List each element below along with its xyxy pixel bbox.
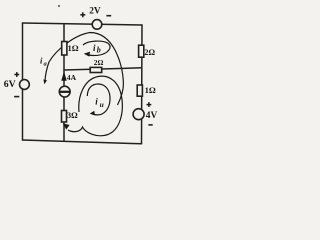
svg-text:1Ω: 1Ω xyxy=(145,85,156,95)
svg-text:6V: 6V xyxy=(4,79,16,90)
arrowhead of inner iu loop xyxy=(90,111,95,116)
svg-text:u: u xyxy=(100,100,104,109)
minus of 2V xyxy=(106,15,111,17)
svg-text:4A: 4A xyxy=(67,73,77,82)
resistor 3ohm (bottom middle) xyxy=(62,111,67,123)
wire: bottom xyxy=(23,140,142,144)
plus of 6V xyxy=(14,72,19,77)
wire: top xyxy=(23,23,143,25)
loop ellipse iu (bottom mesh) xyxy=(68,76,122,136)
svg-text:3Ω: 3Ω xyxy=(67,111,78,120)
svg-text:b: b xyxy=(97,46,101,55)
minus of 4V xyxy=(148,124,152,126)
speck near top xyxy=(58,5,60,7)
current source 4A (middle) xyxy=(59,86,70,97)
resistor 2ohm (middle horizontal) xyxy=(90,67,102,72)
svg-text:4V: 4V xyxy=(146,111,158,121)
arrowhead of iA arc xyxy=(43,79,47,84)
wire: right branch xyxy=(141,25,144,144)
loop ellipse ib (small, top mesh) xyxy=(83,41,110,55)
resistor 2ohm (right top) xyxy=(139,45,144,57)
wire: middle horizontal xyxy=(64,68,142,70)
plus of 2V xyxy=(80,12,85,17)
resistor 1ohm (middle branch) xyxy=(62,42,67,56)
svg-text:2V: 2V xyxy=(89,7,101,17)
minus of 6V xyxy=(14,96,19,98)
svg-text:2Ω: 2Ω xyxy=(144,48,155,57)
current arrow 4A on middle branch xyxy=(62,74,66,81)
voltage source 6V (left) xyxy=(20,80,30,90)
voltage source 2V (top) xyxy=(92,20,102,30)
svg-text:1Ω: 1Ω xyxy=(68,43,79,53)
inner loop arc around iu label xyxy=(87,84,110,115)
voltage source 4V (right) xyxy=(133,109,144,120)
wire: left branch xyxy=(22,23,24,140)
paper background xyxy=(0,0,166,154)
svg-text:2Ω: 2Ω xyxy=(94,58,104,67)
resistor 1ohm (right middle) xyxy=(137,85,142,96)
arrowhead of iu ellipse xyxy=(63,123,70,129)
arrowhead of ib ellipse xyxy=(84,52,90,57)
wire: middle vertical branch xyxy=(63,24,65,142)
loop arc iA (big arc over left mesh) xyxy=(45,33,123,106)
plus of 4V xyxy=(147,102,152,107)
